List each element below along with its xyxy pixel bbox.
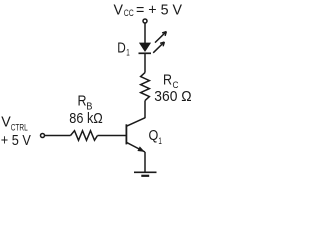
label RC	[163, 72, 179, 91]
label VCTRL	[1, 113, 27, 133]
resistor RC	[141, 73, 150, 101]
svg-text:+ 5 V: + 5 V	[1, 132, 31, 149]
label RB	[78, 92, 93, 112]
svg-text:= + 5 V: = + 5 V	[136, 1, 182, 18]
wire RC to Q1 collector	[144, 101, 146, 118]
label D1	[117, 40, 130, 59]
wire RB to Q1 base	[98, 135, 126, 137]
svg-text:R: R	[163, 72, 172, 89]
svg-text:CC: CC	[124, 8, 134, 19]
svg-text:R: R	[78, 92, 87, 109]
LED light arrow lower	[153, 42, 164, 53]
svg-text:V: V	[114, 1, 124, 18]
svg-text:1: 1	[158, 136, 162, 147]
LED D1	[139, 43, 152, 54]
resistor RB	[71, 131, 98, 141]
transistor Q1 emitter arrow	[137, 146, 144, 152]
wire VCC to D1	[144, 23, 146, 43]
svg-text:86 kΩ: 86 kΩ	[69, 110, 103, 127]
terminal VCTRL	[41, 134, 45, 138]
svg-text:1: 1	[126, 47, 130, 58]
wire D1 to RC	[144, 53, 146, 72]
terminal VCC	[143, 19, 147, 23]
wire VCTRL to RB	[45, 135, 71, 137]
ground	[134, 172, 157, 176]
label Q1	[149, 127, 162, 147]
svg-text:D: D	[117, 40, 126, 57]
svg-text:Q: Q	[149, 127, 159, 144]
svg-text:360 Ω: 360 Ω	[154, 88, 191, 105]
transistor Q1 collector lead	[127, 118, 145, 126]
svg-text:V: V	[1, 113, 11, 130]
label VCC = +5 V	[114, 1, 183, 19]
wire emitter to ground	[144, 152, 146, 172]
transistor Q1 emitter lead	[127, 143, 145, 152]
LED light arrow upper	[155, 32, 166, 43]
transistor Q1 base bar	[125, 124, 127, 144]
